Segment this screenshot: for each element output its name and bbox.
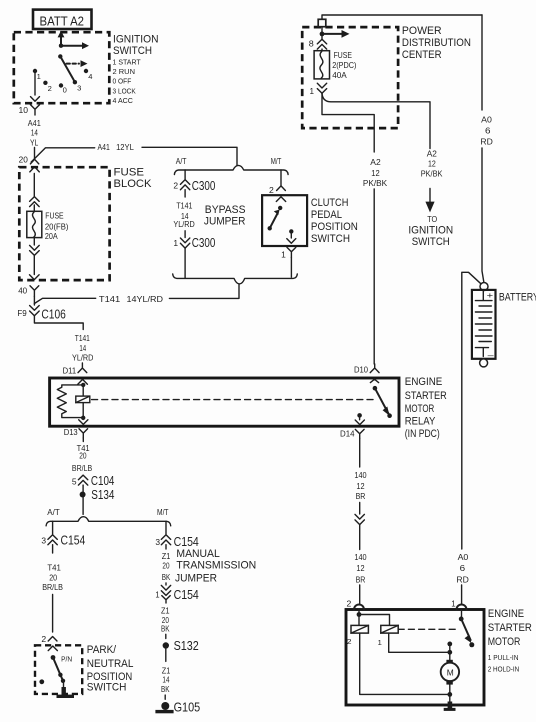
clutch switch internals: [268, 197, 296, 243]
svg-text:RELAY: RELAY: [405, 415, 436, 427]
svg-text:12: 12: [356, 481, 364, 491]
svg-text:20: 20: [162, 561, 169, 571]
A/T M/T merge bracket bottom: [173, 274, 298, 284]
svg-text:(IN PDC): (IN PDC): [405, 428, 440, 440]
svg-text:ENGINE: ENGINE: [405, 376, 443, 388]
inline connector on 140 wire: [355, 503, 364, 550]
clutch pedal position switch box: [262, 195, 307, 246]
wire label A0 6 RD lower: [456, 552, 468, 584]
A/T wire: [184, 170, 186, 179]
arrow to ignition switch: [408, 189, 453, 249]
M/T wire to bottom bracket: [290, 258, 292, 278]
manual transmission jumper label: [175, 548, 256, 585]
svg-text:T141: T141: [176, 200, 192, 210]
svg-text:12YL: 12YL: [116, 142, 134, 152]
svg-text:A2: A2: [427, 149, 437, 159]
M/T wire to clutch switch: [280, 170, 282, 186]
pin 20 connector: [19, 155, 40, 172]
connector C154 pin 3 right: [155, 534, 198, 549]
starter link dashed: [398, 628, 456, 630]
svg-text:FUSE: FUSE: [334, 50, 353, 60]
svg-text:40A: 40A: [332, 70, 347, 80]
svg-text:M/T: M/T: [271, 156, 282, 166]
wire label Z1 14 BK: [161, 666, 171, 694]
wire out of fuse: [30, 238, 40, 280]
svg-text:C154: C154: [174, 587, 199, 602]
relay coil: [76, 385, 90, 418]
svg-text:JUMPER: JUMPER: [204, 215, 246, 227]
wire into starter pin 2: [359, 585, 361, 605]
wire label T41 20 BR/LB: [72, 443, 93, 473]
connector C300 pin 1: [173, 235, 215, 250]
wire D13 down: [82, 438, 84, 442]
PDC label: [402, 25, 471, 61]
svg-text:D10: D10: [354, 365, 368, 375]
fuse block box: [19, 167, 109, 280]
svg-text:14: 14: [31, 127, 38, 137]
svg-text:20: 20: [19, 155, 29, 165]
pin D10: [354, 364, 379, 375]
P/N switch internals: [39, 646, 74, 698]
svg-text:40: 40: [18, 286, 27, 296]
ignition switch label: [113, 34, 159, 105]
clutch switch pin 2: [269, 185, 285, 195]
relay label: [405, 376, 447, 440]
svg-text:CLUTCH: CLUTCH: [311, 197, 349, 209]
motor M: [441, 663, 459, 685]
wire label Z1 20 BK: [162, 545, 171, 582]
svg-text:A/T: A/T: [47, 507, 59, 517]
svg-text:SWITCH: SWITCH: [412, 236, 450, 248]
svg-text:C104: C104: [91, 473, 115, 488]
svg-text:T141: T141: [99, 294, 121, 304]
svg-text:BK: BK: [161, 684, 170, 694]
wire contact1 to pin 10: [31, 73, 40, 101]
svg-text:3: 3: [41, 536, 46, 546]
svg-text:1: 1: [378, 638, 382, 647]
svg-text:BATTERY: BATTERY: [499, 292, 536, 304]
svg-text:M: M: [447, 667, 454, 677]
svg-text:A2: A2: [370, 157, 381, 167]
motor to ground: [360, 633, 456, 711]
ignition rotary contacts: [33, 69, 93, 95]
battery: [472, 283, 536, 367]
svg-text:A0: A0: [458, 552, 469, 562]
svg-text:0: 0: [63, 85, 67, 94]
svg-text:A41: A41: [98, 142, 111, 152]
svg-text:MOTOR: MOTOR: [488, 636, 521, 648]
svg-text:RD: RD: [480, 136, 492, 146]
connector C154 pin 1: [155, 583, 198, 603]
svg-text:POWER: POWER: [402, 25, 442, 37]
svg-text:CENTER: CENTER: [402, 49, 442, 61]
splice S134: [80, 485, 115, 514]
svg-text:20: 20: [79, 451, 87, 461]
relay coil node bottom: [81, 416, 85, 420]
connector C106: [17, 297, 65, 322]
svg-text:14: 14: [79, 343, 86, 353]
BATT A2 feed box: [33, 10, 92, 29]
svg-text:ENGINE: ENGINE: [488, 608, 524, 620]
svg-text:0 OFF: 0 OFF: [113, 77, 132, 86]
svg-text:BR/LB: BR/LB: [42, 582, 63, 592]
wire battery to starter feed: [462, 272, 481, 549]
relay switch entry chevron: [370, 379, 378, 382]
svg-text:S134: S134: [91, 487, 114, 502]
svg-text:1: 1: [37, 72, 41, 81]
relay switch: [355, 386, 392, 425]
wire label 140 12 BR: [354, 470, 366, 501]
svg-text:140: 140: [354, 470, 366, 480]
svg-text:140: 140: [354, 552, 366, 562]
svg-text:D14: D14: [340, 428, 355, 438]
svg-text:YL: YL: [30, 137, 39, 147]
svg-text:+: +: [487, 290, 494, 300]
svg-text:3: 3: [77, 84, 81, 93]
wire T141 14 YL/RD jumper: [173, 190, 194, 238]
fuse 20(FB) 20A: [27, 210, 69, 240]
svg-text:C300: C300: [192, 235, 216, 250]
pin D14: [340, 428, 364, 438]
svg-text:2: 2: [347, 598, 352, 608]
svg-text:A41: A41: [28, 118, 41, 128]
svg-text:FUSE: FUSE: [114, 166, 145, 178]
svg-text:YL/RD: YL/RD: [173, 219, 194, 229]
wire label Z1 20 BK lower: [161, 605, 170, 633]
starter pin 2: [347, 598, 365, 609]
branch wire T141 14YL/RD: [34, 284, 239, 304]
wire into fuse: [30, 174, 40, 212]
wire battery feed to PDC top: [322, 15, 482, 20]
svg-text:3 LOCK: 3 LOCK: [113, 86, 136, 95]
connector C154 pin 3 left: [41, 533, 85, 548]
connector C300 pin 2: [173, 178, 215, 193]
svg-text:2: 2: [269, 185, 274, 195]
starter hold-in coil 2: [347, 610, 369, 647]
relay coil node top: [81, 383, 85, 387]
wire PDC pin1 down-jog to D10 column: [322, 93, 374, 152]
svg-text:SWITCH: SWITCH: [311, 233, 350, 245]
svg-text:PARK/: PARK/: [87, 644, 116, 656]
svg-text:5: 5: [72, 476, 77, 486]
svg-text:MANUAL: MANUAL: [176, 548, 219, 560]
svg-text:1: 1: [451, 598, 456, 608]
svg-text:FUSE: FUSE: [45, 210, 64, 220]
svg-text:6: 6: [460, 563, 466, 573]
svg-text:10: 10: [19, 105, 29, 115]
power distribution center box: [302, 27, 398, 128]
svg-text:1: 1: [173, 238, 178, 248]
splice S132: [163, 634, 199, 661]
relay link dashed: [92, 399, 376, 401]
svg-text:P/N: P/N: [61, 655, 72, 664]
svg-text:1 START: 1 START: [113, 57, 142, 66]
svg-text:S132: S132: [174, 638, 199, 653]
starter label: [488, 608, 533, 674]
svg-text:6: 6: [485, 125, 491, 135]
wire label T141 14 YL/RD: [72, 333, 93, 363]
svg-text:4 ACC: 4 ACC: [113, 96, 134, 105]
svg-text:1 PULL-IN: 1 PULL-IN: [488, 653, 519, 662]
svg-text:C154: C154: [174, 534, 199, 549]
wire PDC pin1 to A2 branch right: [322, 93, 430, 148]
svg-text:DISTRIBUTION: DISTRIBUTION: [402, 37, 471, 49]
svg-text:C154: C154: [61, 533, 86, 548]
svg-text:PEDAL: PEDAL: [311, 209, 342, 221]
clutch switch label: [311, 197, 358, 245]
svg-text:PK/BK: PK/BK: [421, 169, 443, 179]
svg-text:C106: C106: [41, 307, 65, 322]
clutch switch pin 1: [281, 247, 296, 259]
svg-text:SWITCH: SWITCH: [113, 45, 152, 57]
svg-text:SWITCH: SWITCH: [87, 682, 127, 694]
starter switch: [459, 610, 474, 648]
svg-text:T41: T41: [47, 562, 61, 572]
svg-text:IGNITION: IGNITION: [113, 34, 159, 46]
svg-text:STARTER: STARTER: [488, 622, 533, 634]
svg-text:2: 2: [173, 181, 178, 191]
svg-text:IGNITION: IGNITION: [408, 224, 453, 236]
svg-text:A/T: A/T: [176, 156, 187, 166]
PDC pin 1: [310, 83, 327, 96]
svg-text:2: 2: [347, 637, 352, 646]
svg-text:–: –: [488, 350, 494, 360]
A/T M/T split bracket lower: [46, 507, 171, 526]
ground G105: [155, 695, 200, 714]
wire label T41 20 BR/LB lower: [42, 545, 63, 632]
wire jog right to D11 column: [34, 316, 83, 330]
pin D13: [64, 427, 88, 438]
svg-text:POSITION: POSITION: [311, 221, 358, 233]
pin D11: [63, 363, 87, 376]
wire label A2 12 PK/BK (right): [421, 149, 443, 179]
svg-text:BK: BK: [161, 624, 170, 634]
engine starter motor box: [346, 610, 484, 706]
svg-text:12: 12: [428, 159, 436, 169]
M/T wire: [165, 521, 167, 534]
A/T wire to bottom bracket: [184, 248, 186, 278]
svg-text:STARTER: STARTER: [405, 390, 447, 402]
svg-text:M/T: M/T: [157, 507, 169, 517]
P/N switch pin 2: [41, 634, 57, 644]
svg-text:1: 1: [281, 250, 286, 260]
connector C104 pin 5: [72, 473, 115, 488]
pin 10 connector: [19, 105, 40, 115]
svg-text:TO: TO: [427, 214, 437, 224]
svg-text:3: 3: [155, 537, 160, 547]
PDC junction node: [320, 27, 350, 39]
starter motor branch: [389, 633, 453, 663]
svg-text:RD: RD: [456, 574, 468, 584]
svg-text:BR: BR: [356, 491, 366, 501]
wire A2 to relay D10: [373, 189, 375, 364]
svg-text:D11: D11: [63, 366, 77, 376]
svg-text:TRANSMISSION: TRANSMISSION: [176, 559, 256, 571]
svg-text:YL/RD: YL/RD: [72, 353, 93, 363]
svg-text:2 RUN: 2 RUN: [113, 67, 136, 76]
svg-text:BR: BR: [356, 574, 366, 584]
ignition switch internals: feed arrow to BATT A2: [58, 31, 89, 82]
svg-text:4: 4: [88, 72, 92, 81]
svg-text:JUMPER: JUMPER: [175, 573, 217, 585]
relay coil exit chevron: [79, 418, 88, 425]
A/T wire: [52, 521, 54, 534]
svg-text:2(PDC): 2(PDC): [332, 60, 356, 70]
svg-text:20: 20: [49, 572, 57, 582]
fuse block label: [114, 166, 152, 189]
svg-text:A0: A0: [481, 115, 492, 125]
wire label 140 12 BR lower: [354, 552, 366, 584]
park/neutral position switch box: [35, 645, 82, 694]
svg-text:14YL/RD: 14YL/RD: [127, 294, 164, 304]
svg-text:MOTOR: MOTOR: [405, 403, 435, 415]
svg-text:D13: D13: [64, 427, 78, 437]
P/N switch label: [87, 644, 134, 693]
wire into starter pin 1: [461, 585, 463, 605]
pin 40 connector: [18, 286, 39, 297]
svg-text:12: 12: [371, 168, 380, 178]
svg-text:Z1: Z1: [161, 605, 170, 615]
relay coil entry chevron: [78, 379, 88, 384]
PDC top connector square: [318, 19, 326, 26]
svg-text:Z1: Z1: [162, 551, 171, 561]
wire A0 6 RD battery top: [480, 15, 492, 282]
wire to fuse block: [34, 148, 36, 160]
starter pin 1: [451, 598, 466, 609]
svg-text:G105: G105: [174, 699, 201, 714]
resistor: [57, 385, 83, 418]
svg-text:T141: T141: [75, 333, 90, 343]
svg-text:BR/LB: BR/LB: [72, 463, 93, 473]
svg-text:BYPASS: BYPASS: [205, 204, 246, 216]
svg-text:NEUTRAL: NEUTRAL: [87, 658, 134, 670]
svg-text:BK: BK: [162, 572, 171, 582]
svg-text:F9: F9: [17, 308, 27, 318]
PDC pin 8: [309, 38, 327, 49]
A/T M/T split bracket top: [174, 156, 288, 175]
svg-text:2 HOLD-IN: 2 HOLD-IN: [488, 665, 520, 674]
svg-text:BLOCK: BLOCK: [114, 178, 152, 190]
ignition switch box: [14, 32, 110, 103]
branch wire A41 12YL: [31, 142, 237, 165]
fuse 2(PDC) 40A: [314, 49, 356, 80]
starter pull-in coil 1: [359, 615, 398, 648]
wire label A41 14 YL: [28, 118, 41, 148]
svg-text:1: 1: [310, 86, 315, 96]
svg-text:2: 2: [48, 84, 52, 93]
svg-text:PK/BK: PK/BK: [363, 178, 388, 188]
svg-text:1: 1: [155, 589, 159, 599]
engine starter motor relay box: [50, 378, 399, 426]
svg-text:C300: C300: [192, 178, 216, 193]
wire label A2 12 PK/BK (left): [363, 157, 388, 188]
svg-text:20A: 20A: [45, 231, 58, 241]
svg-text:8: 8: [309, 38, 314, 48]
svg-text:2: 2: [41, 634, 46, 644]
svg-text:12: 12: [356, 563, 364, 573]
wire D14 down: [359, 439, 361, 468]
bypass jumper label: [204, 204, 246, 228]
svg-text:BATT A2: BATT A2: [40, 14, 85, 29]
